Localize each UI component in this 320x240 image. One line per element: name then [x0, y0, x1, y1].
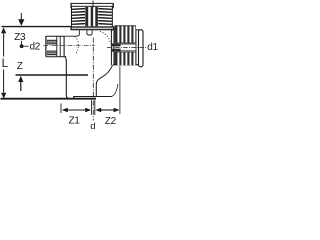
- d2 branch intersection curve (dashed): [75, 37, 79, 55]
- Z1 arrow left: [62, 108, 68, 113]
- body left shoulder lower: [65, 57, 67, 61]
- dimension Z arrow up: [18, 76, 23, 82]
- right socket left flange edge 2: [113, 28, 115, 65]
- top socket ribs left: [72, 9, 85, 25]
- d2 socket top edge: [46, 35, 65, 37]
- right socket left flange edge: [110, 29, 112, 66]
- top socket ribs right: [98, 9, 112, 25]
- bottom reference line: [1, 98, 97, 100]
- top socket left edge: [71, 7, 73, 27]
- top socket seal bar right: [95, 7, 98, 26]
- Z1 arrow right: [85, 108, 91, 113]
- body left edge: [66, 60, 70, 99]
- Z1 left extension tick: [60, 104, 62, 114]
- svg-text:L: L: [2, 58, 9, 70]
- top socket cap: [71, 3, 113, 6]
- svg-text:d1: d1: [147, 42, 158, 53]
- right socket rib band upper: [114, 26, 136, 44]
- top socket right edge: [111, 7, 113, 27]
- d1 branch intersection curve (dashed): [100, 32, 111, 44]
- dimension L line upper: [3, 33, 5, 57]
- top socket inner bore U: [87, 30, 92, 35]
- d2 socket seal bar bottom: [47, 51, 57, 56]
- right socket rib band lower gaps: [118, 52, 134, 65]
- right socket top edge end: [136, 29, 140, 31]
- Z2 extension line: [119, 66, 121, 114]
- d2 socket bottom edge: [46, 56, 66, 58]
- main vertical centerline lower: [92, 38, 94, 121]
- right socket rib band upper top line: [114, 25, 136, 27]
- top socket bottom flange: [70, 26, 114, 30]
- dimension Z3 lower stem: [20, 41, 22, 45]
- dimension Z3 arrow down: [18, 19, 24, 26]
- dimension L arrow down: [1, 93, 6, 99]
- d extension line right: [94, 100, 96, 115]
- Z2 dimension line: [101, 109, 114, 111]
- dimension Z arrow stem: [20, 82, 22, 92]
- right socket rib band upper gaps: [118, 25, 134, 42]
- svg-text:d2: d2: [30, 41, 41, 52]
- top socket seal bar middle: [91, 7, 93, 26]
- d2 leader line: [23, 45, 28, 47]
- right socket rib band lower: [114, 52, 136, 65]
- right socket seal bar lower: [111, 49, 120, 52]
- mid reference line: [16, 74, 89, 76]
- top reference line: [2, 26, 73, 28]
- d2 socket centerline: [44, 45, 95, 47]
- right socket seal bar upper: [111, 43, 120, 46]
- dimension Z3 arrow stem: [20, 13, 22, 20]
- right socket bore line upper: [121, 43, 136, 45]
- body left shoulder upper: [65, 30, 80, 36]
- d2 socket ring 3: [63, 36, 65, 57]
- top socket cap left lip: [70, 4, 72, 9]
- right socket separator: [135, 30, 137, 65]
- svg-text:Z2: Z2: [105, 116, 117, 127]
- right socket centerline: [107, 47, 147, 49]
- d arrow right (outside left): [95, 108, 101, 113]
- right socket end cap: [139, 30, 144, 67]
- top socket seal bar left: [85, 7, 88, 26]
- d2 axis bullet: [20, 44, 24, 48]
- main vertical centerline above socket: [92, 1, 94, 8]
- svg-text:Z1: Z1: [69, 116, 81, 127]
- body right sweep curve: [96, 65, 112, 96]
- Z1 dimension line: [67, 109, 86, 111]
- right socket bore line lower: [121, 50, 136, 52]
- d2 socket seal bar top: [47, 40, 57, 45]
- svg-text:Z3: Z3: [14, 32, 26, 43]
- d2 socket ring 1: [56, 36, 58, 57]
- svg-text:Z: Z: [17, 61, 23, 72]
- body bottom step line: [74, 97, 112, 99]
- d2 socket ring 2: [59, 36, 61, 57]
- d2 socket end edge: [45, 36, 47, 57]
- dimension L line lower: [3, 70, 5, 93]
- d extension line left: [91, 100, 93, 115]
- right socket bottom edge: [113, 64, 139, 66]
- svg-text:d: d: [90, 121, 95, 132]
- body sweep inner curve: [112, 84, 118, 97]
- Z2 arrow right: [114, 108, 120, 113]
- top socket cap right lip: [112, 4, 114, 9]
- right socket top edge left: [111, 29, 114, 31]
- dimension L arrow up: [1, 27, 6, 33]
